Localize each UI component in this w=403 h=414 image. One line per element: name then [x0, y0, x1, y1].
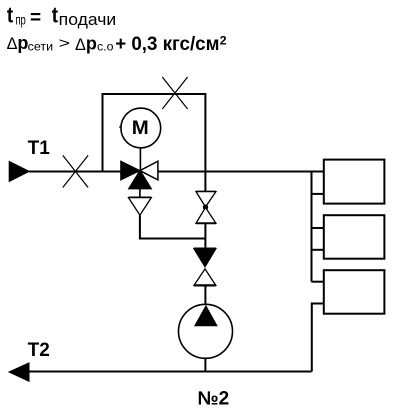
svg-text:t: t: [52, 3, 58, 28]
check valve body (open triangle down): [129, 198, 152, 216]
pipe: check valve down and right to junction: [140, 215, 206, 238]
svg-text:=: =: [30, 7, 41, 28]
balancing valve plug (dot): [203, 205, 208, 210]
radiator 1: [324, 160, 385, 204]
radiator 3: [324, 270, 385, 314]
svg-text:с.о: с.о: [97, 40, 114, 54]
branch pipe from supply line down: [204, 172, 206, 192]
supply arrow T1: [9, 161, 31, 183]
radiator 2: [324, 215, 385, 259]
shut-off valve upper disc (filled triangle down): [194, 249, 216, 267]
stub: radiator 3 inlet: [312, 281, 324, 283]
return line T2: [29, 371, 312, 373]
svg-text:>: >: [59, 35, 70, 52]
svg-text:2: 2: [220, 33, 227, 47]
closed valve on bypass (X symbol): [162, 77, 187, 109]
supply line T1 (left segment): [29, 171, 140, 173]
motor actuator circle: [121, 108, 161, 148]
balancing valve upper body (open triangle down): [196, 192, 216, 207]
return arrow T2: [8, 362, 30, 382]
formula line 1: t_pr = t_podachi: [7, 3, 116, 29]
closed gate valve on T1 (X symbol): [63, 155, 88, 187]
pump impeller (filled triangle up): [194, 305, 218, 326]
formula line 2: dP_seti > dP_s.o + 0,3 kgs/cm2: [7, 33, 227, 55]
stub: radiator 2 inlet: [312, 227, 324, 229]
bypass pipe: [103, 94, 206, 172]
shut-off valve bottom bar: [194, 284, 216, 286]
svg-text:p: p: [86, 33, 97, 53]
svg-text:Δ: Δ: [75, 36, 86, 54]
stub: radiator 1 outlet: [312, 193, 324, 195]
three-way valve: bottom port (filled): [129, 171, 151, 189]
svg-text:+ 0,3 кгс/см: + 0,3 кгс/см: [115, 34, 219, 55]
supply line T1 (right segment): [158, 171, 324, 173]
svg-text:t: t: [7, 3, 13, 28]
tick on actuator left: [119, 126, 121, 128]
svg-text:T2: T2: [28, 340, 50, 361]
pipe: balancing valve to shut-off valve: [204, 224, 206, 248]
three-way valve: left port (filled): [121, 161, 140, 180]
three-way valve: right port (open): [140, 161, 158, 180]
check valve top bar: [129, 197, 152, 199]
riser to radiators: [311, 172, 313, 282]
shut-off valve lower disc (open triangle up): [194, 269, 216, 286]
svg-text:Δ: Δ: [7, 35, 18, 53]
svg-text:M: M: [132, 118, 149, 139]
shut-off valve top bar: [194, 248, 216, 250]
actuator stem: [139, 148, 141, 171]
balancing valve lower body (open triangle up): [196, 208, 216, 224]
svg-text:пр: пр: [15, 12, 26, 28]
pipe: pump to return line: [204, 358, 206, 371]
svg-text:№2: №2: [198, 388, 230, 409]
svg-text:сети: сети: [28, 40, 53, 54]
pipe: valve to check valve: [139, 189, 141, 197]
svg-text:T1: T1: [28, 138, 51, 159]
return drop from radiator 3: [312, 304, 324, 372]
stub: radiator 2 outlet: [312, 249, 324, 251]
balancing valve bottom bar: [196, 222, 216, 224]
svg-text:подачи: подачи: [59, 11, 116, 29]
pipe: valve to pump: [204, 286, 206, 305]
balancing valve top bar: [196, 191, 216, 193]
pump circle: [179, 304, 233, 358]
